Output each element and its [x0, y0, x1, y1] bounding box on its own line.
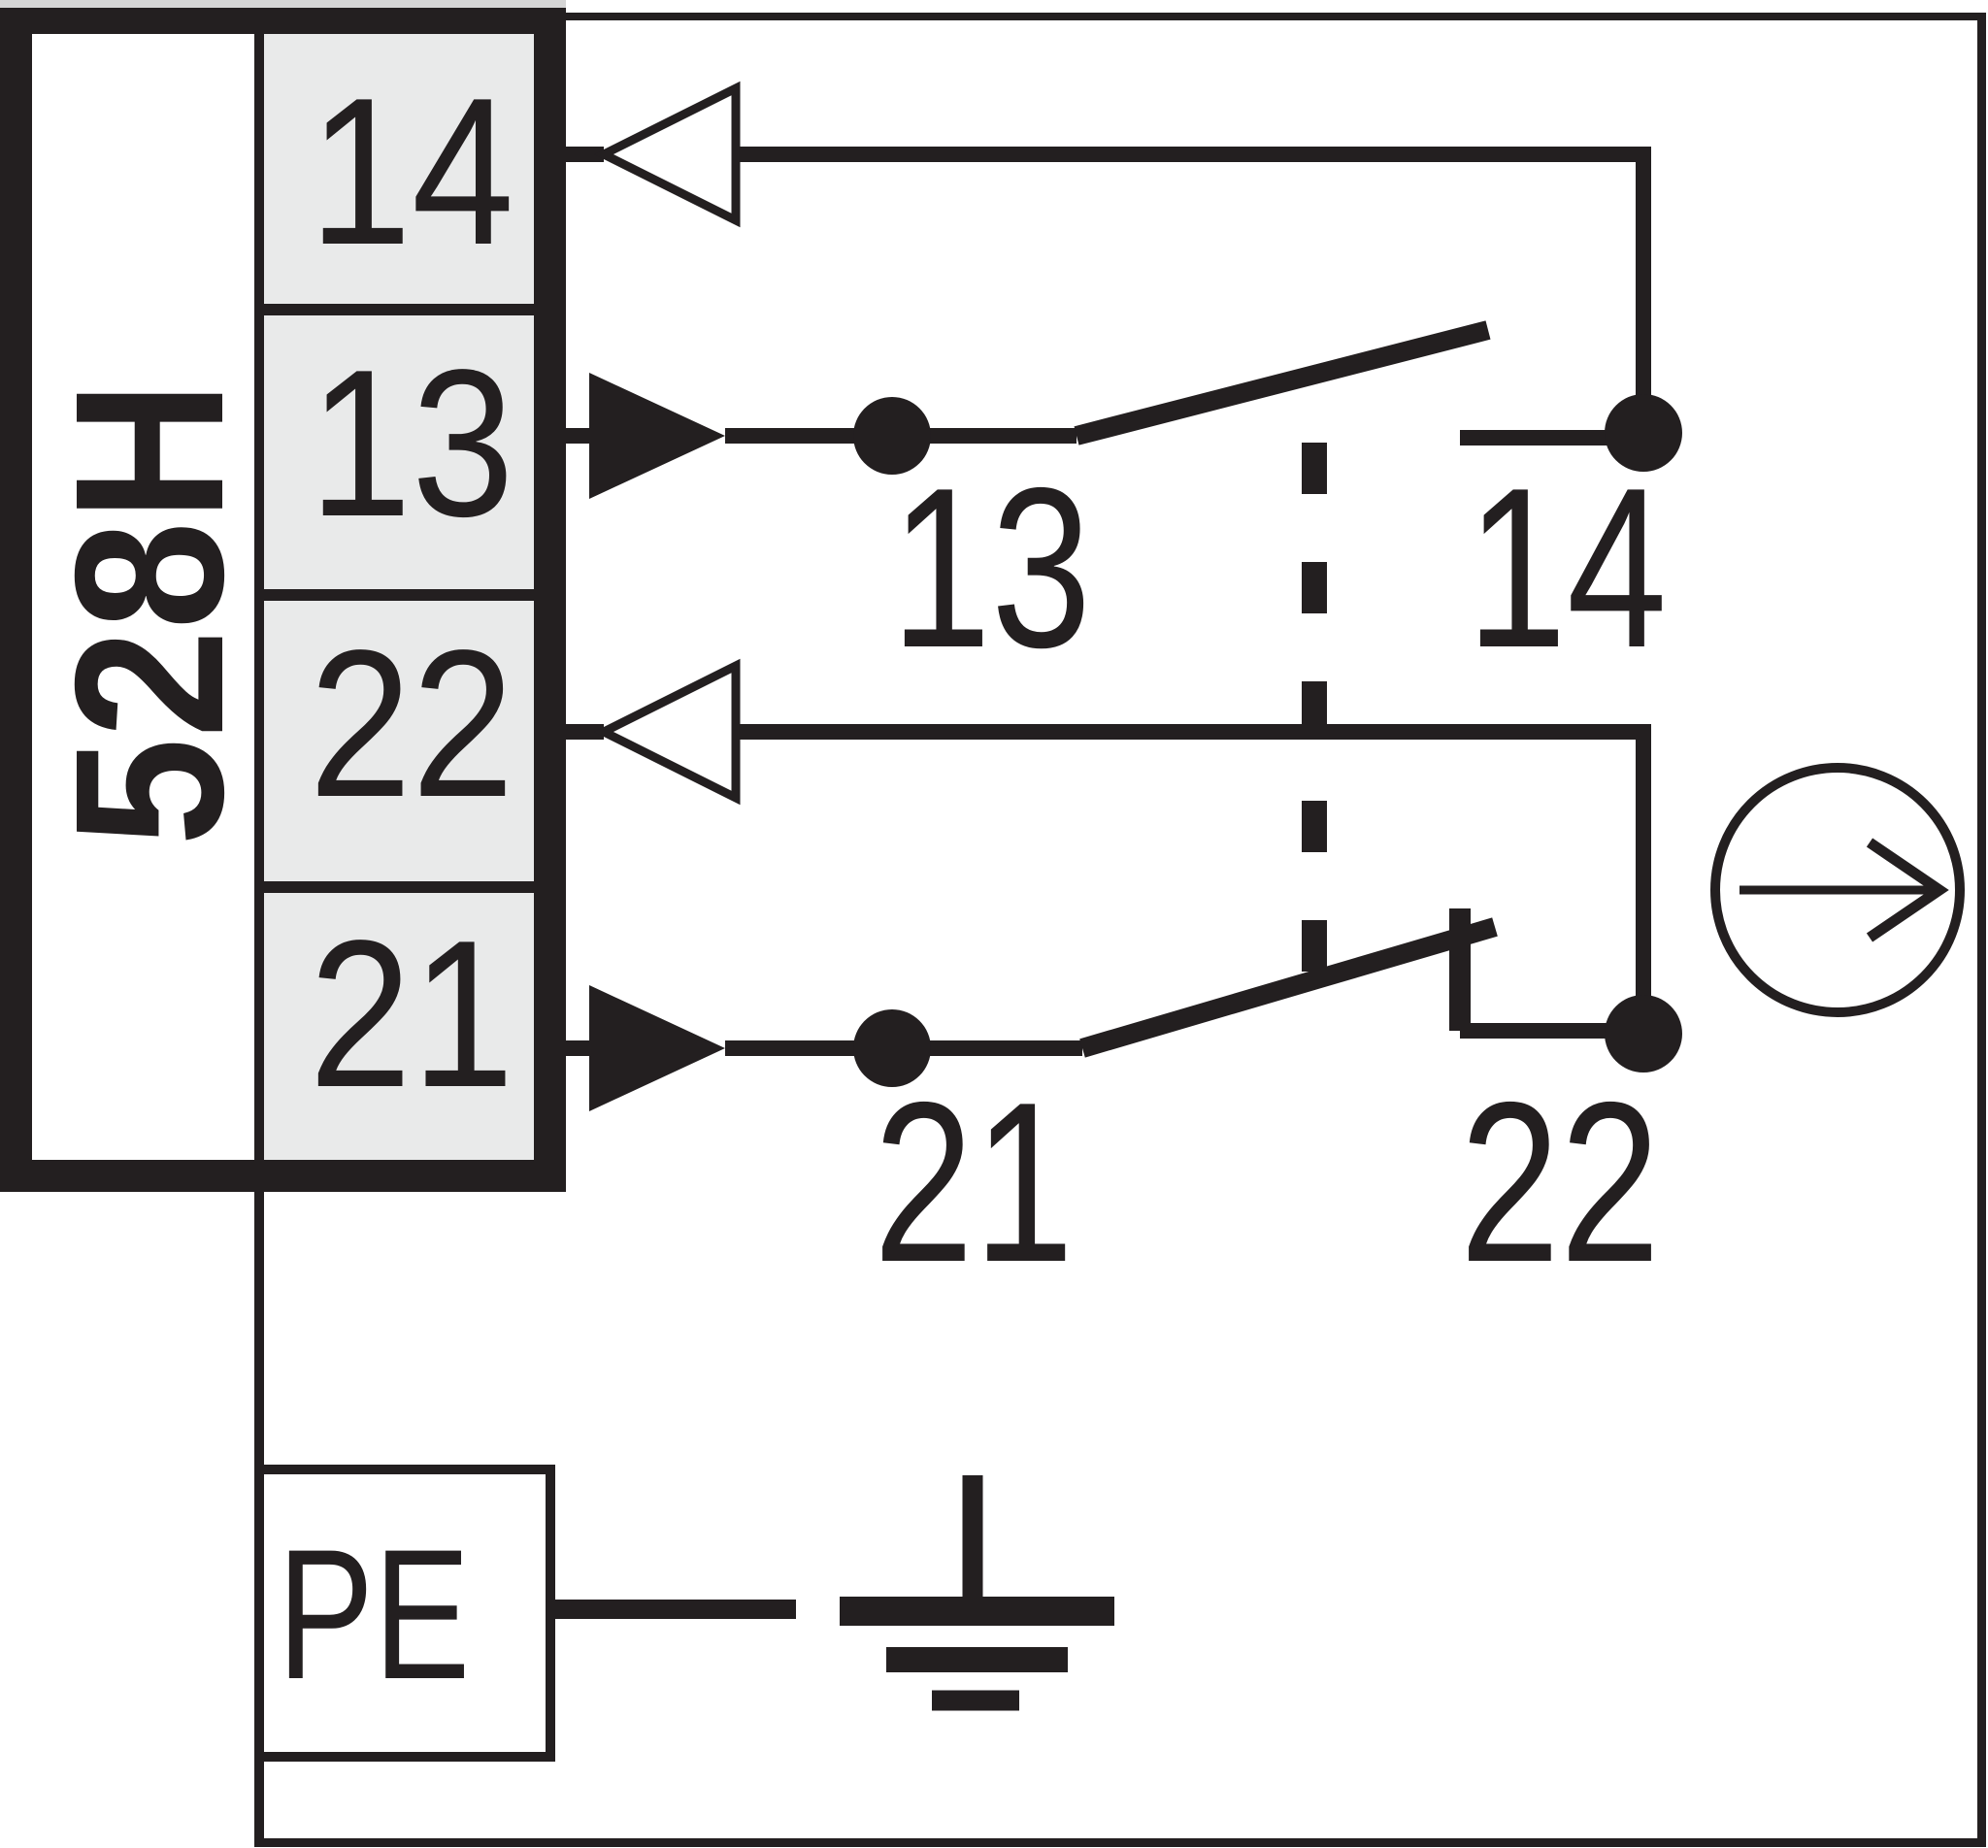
svg-text:22: 22 [1460, 1054, 1660, 1309]
svg-text:14: 14 [1467, 440, 1667, 695]
svg-text:21: 21 [309, 898, 514, 1132]
svg-text:13: 13 [891, 440, 1091, 695]
svg-text:PE: PE [278, 1511, 471, 1718]
svg-text:14: 14 [309, 55, 514, 289]
svg-text:22: 22 [309, 608, 514, 841]
svg-text:528H: 528H [31, 380, 268, 845]
svg-text:21: 21 [874, 1054, 1074, 1309]
svg-text:13: 13 [309, 327, 514, 561]
